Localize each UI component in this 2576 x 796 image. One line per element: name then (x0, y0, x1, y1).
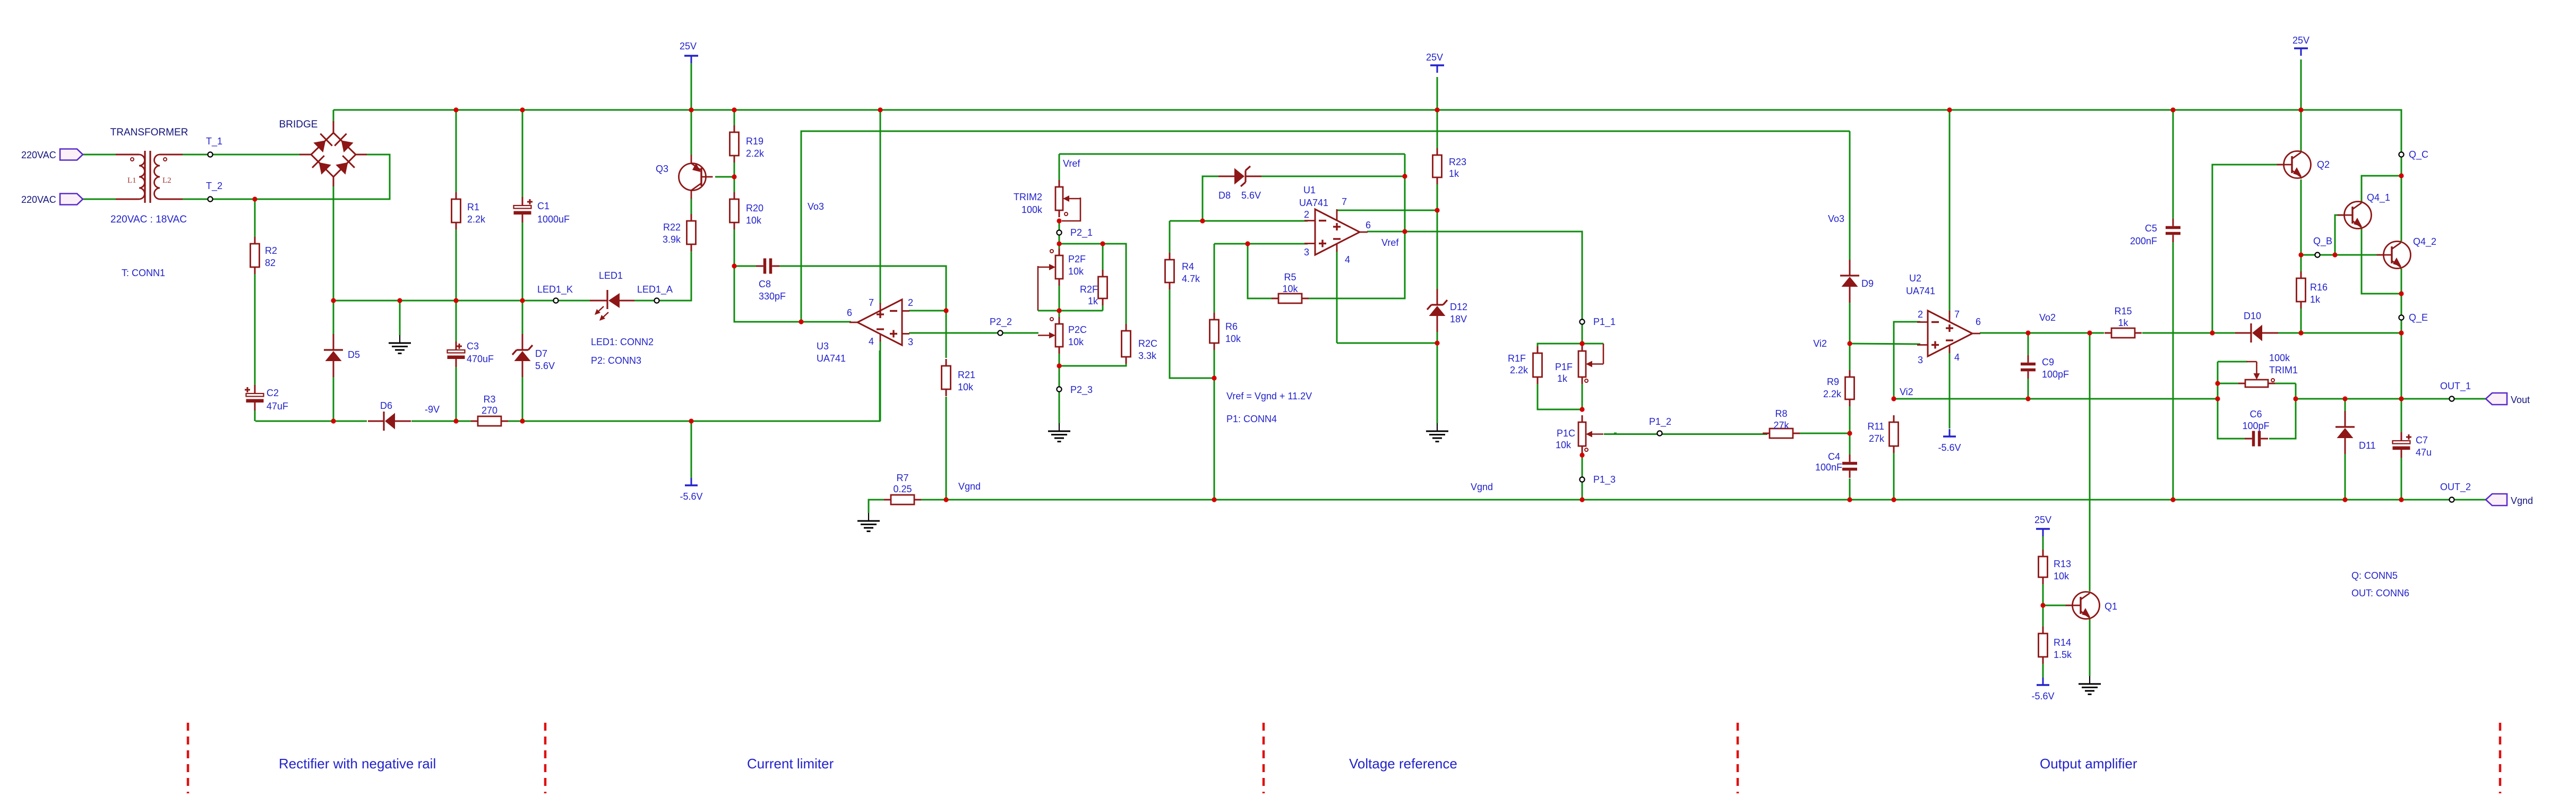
svg-text:47u: 47u (2416, 447, 2432, 458)
label Vo3 right (1828, 213, 1844, 224)
svg-text:25V: 25V (1426, 52, 1443, 63)
wire (691, 421, 692, 478)
resistor R6 (1210, 313, 1219, 350)
wire (1437, 332, 1438, 343)
power -5.6V (1938, 429, 1961, 453)
svg-text:2: 2 (1918, 309, 1923, 320)
wire (1849, 478, 1851, 500)
connector 220VAC top (60, 149, 83, 160)
svg-text:U3: U3 (817, 341, 829, 352)
svg-text:10k: 10k (1068, 337, 1084, 347)
label D7 (535, 348, 547, 359)
svg-text:3.3k: 3.3k (1138, 350, 1157, 361)
wire (1367, 232, 1582, 320)
svg-text:T: CONN1: T: CONN1 (122, 268, 165, 278)
section title (1349, 756, 1457, 772)
wire (333, 186, 334, 301)
wire (1248, 244, 1272, 298)
wire (1849, 344, 1851, 370)
junction (1057, 218, 1061, 223)
wire (2301, 254, 2383, 256)
svg-text:2.2k: 2.2k (1823, 389, 1842, 399)
resistor R2F (1098, 270, 1107, 305)
resistor R4 (1165, 253, 1174, 289)
svg-text:25V: 25V (680, 41, 697, 52)
wire (1102, 244, 1104, 270)
svg-text:C6: C6 (2249, 409, 2262, 420)
junction (2399, 497, 2403, 502)
svg-text:4: 4 (1954, 352, 1960, 363)
power 25V (2034, 515, 2051, 536)
label TRIM1 (2269, 365, 2298, 375)
potentiometer TRIM2 (1055, 180, 1080, 217)
svg-text:10k: 10k (1282, 284, 1298, 294)
resistor R9 (1845, 370, 1854, 406)
wire (2300, 59, 2302, 110)
svg-text:D8: D8 (1218, 190, 1231, 201)
svg-text:R9: R9 (1827, 376, 1839, 387)
label Vref top (1063, 158, 1080, 169)
resistor R1 (452, 192, 461, 229)
bridge rectifier (299, 121, 367, 186)
power 25V (1426, 52, 1444, 73)
label R16 value (2310, 294, 2321, 305)
svg-text:4: 4 (1345, 254, 1350, 265)
label R9 (1827, 376, 1839, 387)
svg-text:6: 6 (847, 307, 852, 318)
potentiometer P1C (1578, 415, 1603, 453)
svg-text:D6: D6 (380, 400, 392, 411)
label LED1_A (637, 284, 673, 295)
op-amp U2 (1917, 311, 1980, 356)
label Q4_1 (2367, 192, 2390, 203)
svg-text:R15: R15 (2114, 306, 2132, 316)
capacitor C1 (514, 197, 533, 222)
wire (1850, 344, 1920, 344)
wire (1849, 433, 1851, 455)
wire (1538, 344, 1582, 346)
svg-text:7: 7 (869, 297, 874, 308)
resistor R5 (1272, 294, 1309, 303)
ground (857, 513, 880, 532)
ground (1048, 423, 1070, 442)
label R16 (2310, 282, 2328, 293)
svg-text:D9: D9 (1861, 278, 1874, 289)
op-amp U3 (849, 299, 909, 345)
power 25V (680, 41, 698, 63)
svg-text:LED1: LED1 (599, 270, 623, 281)
section separator (1737, 723, 1739, 793)
junction (1579, 497, 1584, 502)
label R1F value (1510, 365, 1529, 375)
label D5 (348, 349, 360, 360)
wire (1849, 131, 1851, 260)
wire (2362, 228, 2401, 294)
svg-text:C5: C5 (2145, 223, 2157, 234)
label R3 (483, 394, 495, 405)
pin LED1_K (553, 298, 558, 303)
wire (1894, 398, 2218, 400)
wire (2362, 176, 2401, 202)
junction (2342, 396, 2347, 401)
label R4 value (1182, 273, 1200, 284)
wire (254, 409, 256, 421)
svg-text:C1: C1 (537, 201, 549, 211)
label Q2 (2317, 159, 2330, 170)
junction (1947, 107, 1952, 112)
wire (634, 251, 691, 301)
wiper terminal mark (2271, 379, 2274, 382)
junction (520, 107, 525, 112)
junction (397, 298, 402, 303)
ground (389, 335, 411, 354)
svg-text:C3: C3 (467, 341, 479, 352)
section title (747, 756, 834, 772)
TRIM2 wiper return (1062, 198, 1080, 221)
label P1F value (1557, 373, 1568, 384)
svg-text:-5.6V: -5.6V (680, 491, 702, 502)
svg-text:D12: D12 (1450, 302, 1467, 312)
svg-text:R4: R4 (1182, 261, 1194, 272)
svg-text:Vo3: Vo3 (1828, 213, 1844, 224)
capacitor C4 (1842, 455, 1857, 478)
label P2C value (1068, 337, 1084, 347)
U1 label (1303, 185, 1316, 195)
svg-text:5.6V: 5.6V (535, 361, 555, 371)
svg-text:C2: C2 (267, 388, 279, 398)
svg-text:P2C: P2C (1068, 324, 1087, 335)
ground (1426, 423, 1448, 442)
svg-text:27k: 27k (1869, 433, 1885, 444)
diode D12 (1427, 289, 1447, 332)
diode D7 (512, 334, 533, 377)
pin Q_E (2399, 315, 2403, 320)
wire (2218, 361, 2247, 363)
capacitor C9 (2021, 355, 2036, 379)
svg-text:3.9k: 3.9k (663, 234, 681, 245)
label R1F (1508, 353, 1526, 364)
label T_2 (206, 181, 222, 192)
label T_1 (206, 136, 222, 147)
label C8 (759, 279, 771, 289)
label D6 (380, 400, 392, 411)
svg-text:LED1: CONN2: LED1: CONN2 (591, 337, 654, 347)
wire (1437, 343, 1438, 423)
potentiometer TRIM1 (2238, 362, 2275, 387)
svg-text:C9: C9 (2042, 357, 2054, 367)
svg-text:P2_3: P2_3 (1070, 384, 1093, 396)
label Vgnd mid (1471, 482, 1493, 492)
wire (2300, 110, 2302, 151)
label Vgnd out (2511, 495, 2533, 506)
svg-text:R1: R1 (467, 202, 479, 212)
wire (333, 110, 2401, 241)
svg-text:1000uF: 1000uF (537, 214, 570, 225)
label BRIDGE (279, 119, 318, 130)
junction (1435, 208, 1439, 212)
diode D5 (324, 334, 343, 377)
wire (946, 397, 947, 500)
junction (2040, 603, 2045, 607)
label R2C value (1138, 350, 1157, 361)
label R2F (1080, 284, 1098, 295)
label Vout (2511, 395, 2530, 405)
junction (1847, 431, 1852, 435)
resistor R1F (1533, 346, 1542, 384)
U1 pin 4 (1345, 254, 1350, 265)
label P2F value (1068, 266, 1084, 277)
svg-text:270: 270 (482, 405, 497, 416)
label R14 (2054, 637, 2071, 648)
svg-text:25V: 25V (2034, 515, 2051, 525)
U2 part (1906, 286, 1935, 296)
wire (2212, 165, 2283, 333)
junction (2298, 330, 2303, 335)
label Q_E (2409, 312, 2428, 323)
wire (333, 110, 334, 121)
wiper terminal mark (1050, 250, 1053, 253)
U2 pin 6 (1976, 316, 1981, 327)
svg-text:-5.6V: -5.6V (1938, 442, 1961, 453)
svg-text:1k: 1k (1557, 373, 1568, 384)
svg-text:10k: 10k (1225, 333, 1241, 344)
resistor R2 (251, 237, 260, 274)
svg-text:P1_3: P1_3 (1593, 474, 1616, 485)
svg-text:U1: U1 (1303, 185, 1316, 195)
label C2 value (267, 401, 288, 412)
svg-text:C4: C4 (1828, 451, 1840, 462)
wire (2401, 294, 2402, 333)
svg-text:25V: 25V (2292, 35, 2309, 46)
resistor R19 (730, 125, 739, 162)
label R1 (467, 202, 479, 212)
section title (2040, 756, 2137, 772)
potentiometer P2C (1038, 317, 1063, 354)
svg-text:UA741: UA741 (817, 353, 846, 364)
wire (2295, 383, 2297, 399)
wire (2401, 399, 2402, 433)
label R3 value (482, 405, 497, 416)
svg-text:P2: CONN3: P2: CONN3 (591, 355, 641, 366)
wire (2042, 605, 2044, 627)
label C4 value (1815, 462, 1842, 473)
label P1_2 (1649, 416, 1671, 427)
label 220VAC : 18VAC (110, 214, 187, 225)
svg-text:330pF: 330pF (759, 291, 786, 302)
wire (1437, 210, 1438, 289)
label R14 value (2054, 649, 2072, 660)
svg-text:P2F: P2F (1068, 254, 1086, 264)
wire (801, 131, 1850, 322)
svg-text:TRIM2: TRIM2 (1014, 192, 1042, 202)
label C1 (537, 201, 549, 211)
resistor R20 (730, 192, 739, 229)
svg-text:2: 2 (908, 297, 913, 308)
junction (1212, 497, 1216, 502)
power -5.6V (680, 478, 702, 502)
junction (453, 298, 458, 303)
transistor Q2 (2277, 151, 2311, 179)
label Q_B (2313, 236, 2332, 247)
label C8 value (759, 291, 786, 302)
svg-text:3: 3 (1304, 247, 1309, 258)
wire (456, 110, 457, 193)
junction (1435, 107, 1439, 112)
label LED1 (599, 270, 623, 281)
wire (1604, 433, 1767, 435)
transformer T (116, 151, 183, 203)
power -5.6V (2031, 678, 2054, 701)
diode D11 (2335, 411, 2355, 454)
junction (2399, 173, 2403, 178)
svg-text:7: 7 (1954, 309, 1960, 320)
wire (2217, 362, 2219, 383)
section separator (544, 723, 547, 793)
junction (2342, 497, 2347, 502)
wire (1849, 303, 1851, 344)
svg-text:3: 3 (1918, 355, 1923, 365)
label R6 (1225, 321, 1238, 332)
wire (2401, 269, 2402, 294)
junction (2087, 330, 2092, 335)
svg-text:100pF: 100pF (2242, 421, 2269, 431)
svg-text:OUT_1: OUT_1 (2440, 381, 2471, 392)
junction (1212, 375, 1216, 380)
svg-text:R8: R8 (1775, 408, 1787, 419)
U3 pin 3 (908, 337, 913, 347)
P1F wiper return (1603, 344, 1604, 364)
label T: CONN1 (122, 268, 165, 278)
svg-text:82: 82 (265, 258, 276, 268)
label P1_3 (1593, 474, 1616, 485)
potentiometer P1F (1578, 344, 1603, 384)
label D7 value (535, 361, 555, 371)
label D8 (1218, 190, 1231, 201)
label R2 (265, 245, 277, 256)
wire (2401, 333, 2402, 399)
section title (279, 756, 436, 772)
wire (522, 110, 523, 199)
op-amp U1 (1304, 209, 1368, 255)
label R7 (896, 473, 908, 483)
pin Q_C (2399, 152, 2403, 157)
wire (2218, 399, 2246, 439)
resistor R21 (942, 359, 951, 396)
label LED1_K (537, 284, 573, 295)
wire (183, 155, 390, 199)
wire (734, 162, 735, 192)
label R13 value (2054, 571, 2070, 581)
junction (1435, 340, 1439, 345)
wire (1261, 176, 1405, 177)
diode D10 (2235, 323, 2278, 343)
svg-text:D7: D7 (535, 348, 547, 359)
svg-text:R19: R19 (746, 136, 763, 147)
label -9V (425, 404, 440, 415)
wire (456, 301, 457, 345)
label R11 value (1869, 433, 1885, 444)
junction (252, 196, 257, 201)
wire (1894, 322, 1920, 399)
label R15 (2114, 306, 2132, 316)
svg-text:TRIM1: TRIM1 (2269, 365, 2298, 375)
svg-text:R6: R6 (1225, 321, 1238, 332)
svg-text:Vo2: Vo2 (2039, 312, 2056, 323)
diode D6 (368, 412, 411, 431)
wire (1170, 289, 1214, 378)
U2 pin 7 (1954, 309, 1960, 320)
transistor Q4_1 (2338, 201, 2372, 229)
resistor R14 (2039, 627, 2048, 664)
wire (1169, 221, 1171, 253)
pin Q_B (2315, 252, 2320, 257)
svg-text:Vref: Vref (1063, 158, 1080, 169)
svg-text:P1: CONN4: P1: CONN4 (1226, 414, 1277, 424)
wire (1893, 416, 1895, 422)
junction (1057, 363, 1061, 368)
wire (1059, 354, 1126, 366)
svg-text:6: 6 (1976, 316, 1981, 327)
wiper terminal mark (1585, 448, 1588, 451)
label P2C (1068, 324, 1087, 335)
resistor R23 (1433, 148, 1442, 184)
junction (520, 298, 525, 303)
svg-text:C7: C7 (2416, 435, 2428, 446)
U1 pin 2 (1304, 209, 1309, 220)
svg-text:R13: R13 (2054, 559, 2071, 569)
capacitor C3 (448, 341, 465, 367)
wire (2296, 398, 2486, 400)
label R19 value (746, 148, 765, 159)
svg-text:Vi2: Vi2 (1900, 387, 1913, 397)
label R23 value (1449, 168, 1459, 179)
junction (1579, 341, 1584, 346)
pin P1_3 (1579, 477, 1584, 482)
wire (1059, 154, 1060, 180)
label R20 (746, 203, 763, 213)
label Q4_2 (2413, 236, 2436, 247)
junction (520, 418, 525, 423)
junction (2215, 381, 2220, 386)
wiper terminal mark (1064, 212, 1068, 216)
P2F wiper return (1037, 266, 1039, 311)
wire (1059, 153, 1405, 155)
wire (522, 220, 523, 301)
label U3 part (817, 353, 846, 364)
wire (869, 500, 884, 513)
svg-text:Q4_2: Q4_2 (2413, 236, 2436, 247)
wire (1102, 305, 1104, 311)
junction (732, 107, 736, 112)
junction (2170, 497, 2175, 502)
wire (909, 310, 946, 312)
wire (1893, 453, 1895, 500)
junction (1579, 452, 1584, 457)
svg-text:1k: 1k (2310, 294, 2321, 305)
resistor R2C (1122, 324, 1131, 364)
U2 pin 2 (1918, 309, 1923, 320)
capacitor C5 (2166, 219, 2180, 242)
resistor R3 (471, 416, 508, 426)
svg-text:1.5k: 1.5k (2054, 649, 2072, 660)
svg-text:R3: R3 (483, 394, 495, 405)
label R7 value (893, 484, 912, 494)
label C6 (2249, 409, 2262, 420)
label Q3 (656, 164, 668, 174)
label R2F value (1088, 296, 1098, 306)
connector 220VAC bottom (60, 194, 83, 205)
wire (254, 274, 256, 394)
